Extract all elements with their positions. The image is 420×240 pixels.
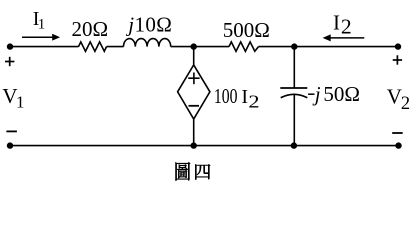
wire capacitor C1 to bottom rail: [293, 94, 295, 145]
minus sign inside dependent source: [189, 105, 200, 107]
inductor j10ohm arcs: [124, 39, 171, 47]
capacitor C1 curved bottom plate: [281, 94, 308, 98]
label I2: [333, 10, 352, 38]
svg-text:20Ω: 20Ω: [72, 17, 109, 41]
svg-text:j10Ω: j10Ω: [125, 12, 172, 36]
label V2: [387, 85, 410, 114]
wire node B down to capacitor C1: [293, 47, 295, 88]
label V1: [2, 84, 24, 112]
svg-text:I: I: [241, 86, 248, 108]
label I1: [33, 8, 46, 32]
svg-text:500Ω: 500Ω: [223, 18, 270, 42]
bottom right terminal dot (port 2 -): [395, 142, 401, 148]
wire inductor to node A: [171, 46, 229, 48]
bottom node under dependent source dot: [191, 142, 197, 148]
svg-text:I: I: [333, 10, 340, 34]
wire between resistor R1 and inductor L1: [107, 46, 124, 48]
minus sign port 2: [392, 132, 403, 134]
wire top rail from port1 to resistor R1: [10, 46, 79, 48]
svg-text:1: 1: [16, 93, 25, 112]
label 500ohm: [223, 18, 270, 42]
wire dependent source to bottom rail: [193, 119, 195, 146]
left terminal node dot (port 1 +): [7, 43, 13, 49]
bottom left terminal dot (port 1 -): [7, 142, 13, 148]
capacitor C1 top plate: [280, 87, 307, 89]
current I1 arrow: [22, 34, 60, 41]
minus sign port 1: [6, 130, 17, 132]
svg-text:2: 2: [341, 15, 352, 39]
dependent source U1 diamond: [178, 65, 210, 119]
node B dot: [291, 43, 297, 49]
right terminal node dot (port 2 +): [395, 43, 401, 49]
wire resistor 500 to node B: [259, 46, 295, 48]
svg-text:50Ω: 50Ω: [323, 82, 360, 106]
current I2 arrow: [323, 34, 365, 41]
plus sign port 1: [5, 57, 14, 66]
resistor 500ohm zigzag: [229, 42, 259, 51]
svg-text:1: 1: [38, 17, 46, 33]
node A dot: [191, 43, 197, 49]
wire node B to port 2: [294, 46, 398, 48]
svg-text:2: 2: [248, 91, 259, 111]
plus sign inside dependent source: [188, 73, 199, 85]
label 20ohm: [72, 17, 109, 41]
label 100 I2: [214, 84, 260, 112]
svg-text:V: V: [387, 85, 402, 109]
caption char four: [195, 164, 210, 179]
bottom rail wire: [10, 145, 399, 147]
wire node A down to dependent source: [193, 47, 195, 65]
bottom node under capacitor dot: [291, 142, 297, 148]
svg-text:100: 100: [214, 84, 238, 108]
plus sign port 2: [393, 55, 402, 64]
label -j50ohm: [308, 82, 360, 106]
resistor 20ohm zigzag: [79, 42, 107, 51]
caption char tu (figure): [176, 162, 191, 180]
svg-text:2: 2: [401, 94, 410, 114]
label j10ohm: [125, 12, 172, 36]
